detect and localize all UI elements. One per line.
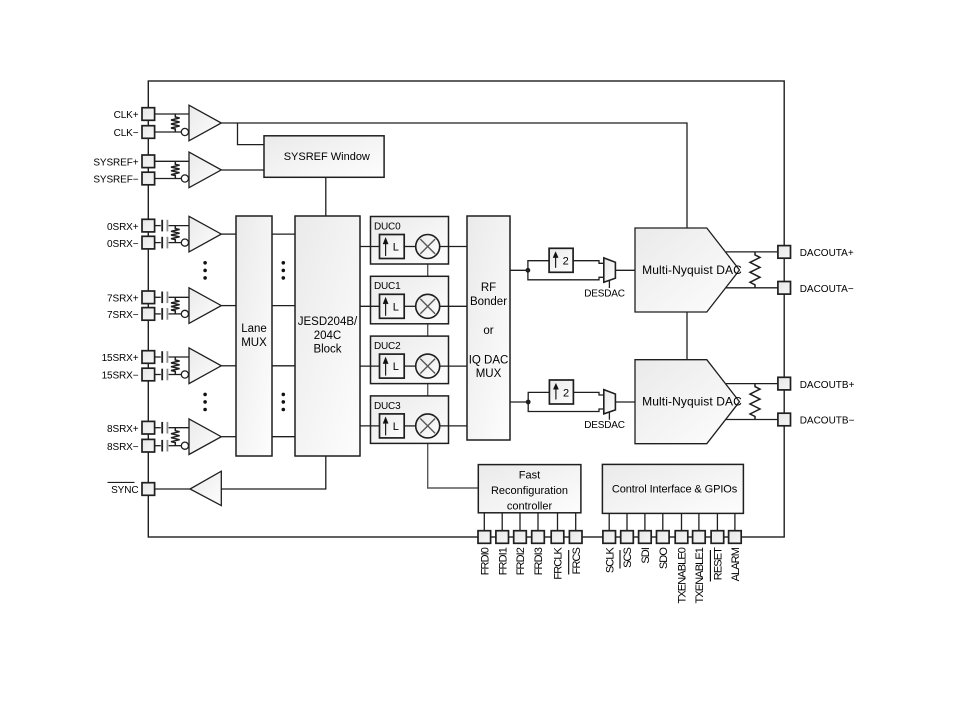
wire 8SRX+ input	[155, 427, 161, 429]
wire SYSREF Window to JESD block	[325, 177, 327, 216]
block Multi-Nyquist DAC B	[635, 360, 740, 444]
svg-text:204C: 204C	[314, 330, 342, 342]
wire to pin FRCLK	[557, 513, 559, 531]
pin RESET	[711, 531, 724, 544]
wire DAC A plus output	[726, 251, 778, 253]
svg-text:SYNC: SYNC	[111, 485, 138, 496]
wire interpolator to mixer DUC1	[404, 305, 416, 307]
wire to pin SDI	[644, 513, 646, 530]
wire B upper branch	[528, 392, 549, 402]
svg-text:SDO: SDO	[658, 547, 670, 569]
svg-text:L: L	[393, 242, 399, 254]
wire to pin FRDI1	[501, 513, 503, 531]
block RF Bonder / IQ DAC MUX	[467, 216, 510, 440]
pin 7SRX+	[142, 291, 155, 304]
interpolator x2 box B	[549, 380, 573, 404]
coupling capacitor 0SRX+	[161, 220, 163, 232]
ellipsis dots left lower	[203, 393, 207, 397]
wire JESD to SYNC buffer	[221, 456, 325, 489]
inversion bubble 7SRX-	[181, 310, 188, 317]
wire A x2 output to mux	[573, 261, 604, 264]
wire SYNC pin to buffer	[155, 488, 190, 490]
interpolator L box DUC0	[380, 235, 405, 259]
svg-text:FRCLK: FRCLK	[553, 546, 565, 579]
svg-text:SCLK: SCLK	[604, 546, 616, 573]
wire 8SRX buffer to Lane MUX	[221, 436, 236, 438]
svg-text:TXENABLE1: TXENABLE1	[694, 547, 706, 603]
pin FRDI3	[532, 531, 545, 544]
wire JESD to DUC2	[360, 365, 380, 367]
wire interpolator to mixer DUC0	[404, 246, 416, 248]
ellipsis dots mid upper	[282, 261, 286, 265]
wire SYSREF+ input	[155, 160, 189, 162]
wire DAC A minus output	[726, 287, 778, 289]
pin SYSREF-	[142, 172, 155, 185]
pin SYSREF+	[142, 155, 155, 168]
wire JESD to DUC1	[360, 305, 380, 307]
svg-text:CLK−: CLK−	[114, 128, 139, 139]
pin 15SRX-	[142, 368, 155, 381]
svg-text:2: 2	[563, 387, 569, 399]
wire interpolator to mixer DUC3	[404, 425, 416, 427]
svg-text:DESDAC: DESDAC	[584, 288, 624, 299]
svg-text:RESET: RESET	[713, 547, 725, 580]
wire DUC3 to RF bonder	[440, 425, 467, 427]
inversion bubble 15SRX-	[181, 371, 188, 378]
pin TXENABLE1	[693, 531, 706, 544]
block Lane MUX	[236, 216, 272, 456]
termination resistor DACOUTA	[750, 252, 760, 288]
pin DACOUTA+	[778, 246, 791, 259]
svg-text:Block: Block	[313, 344, 341, 356]
block JESD204B/204C	[295, 216, 360, 456]
wire mux B to DAC	[615, 401, 635, 403]
block DUC1	[371, 276, 449, 324]
svg-text:Multi-Nyquist DAC: Multi-Nyquist DAC	[642, 395, 742, 409]
wire 15SRX- input	[155, 374, 161, 376]
coupling capacitor 8SRX-	[161, 440, 163, 452]
svg-text:SDI: SDI	[640, 547, 652, 563]
svg-text:FRCS: FRCS	[571, 547, 583, 574]
inversion bubble 8SRX-	[181, 442, 188, 449]
wire A bypass branch	[528, 270, 604, 280]
wire to pin SCLK	[608, 513, 610, 530]
mux DESDAC B	[604, 390, 616, 414]
svg-text:L: L	[393, 361, 399, 373]
svg-text:RF: RF	[481, 282, 496, 294]
svg-text:8SRX−: 8SRX−	[107, 442, 139, 453]
interpolator L box DUC2	[380, 354, 405, 378]
svg-text:SYSREF−: SYSREF−	[93, 175, 138, 186]
svg-text:FRDI2: FRDI2	[515, 547, 527, 575]
svg-text:CLK+: CLK+	[114, 110, 139, 121]
wire to pin ALARM	[734, 513, 736, 530]
interpolator L box DUC1	[380, 294, 405, 318]
coupling capacitor 7SRX-	[161, 308, 163, 320]
wire CLK+ input	[155, 113, 189, 115]
pin DACOUTA-	[778, 282, 791, 295]
svg-text:controller: controller	[507, 500, 553, 512]
pin FRDI1	[496, 531, 509, 544]
wire DUC0 to RF bonder	[440, 246, 467, 248]
wire JESD to DUC3	[360, 425, 380, 427]
svg-text:FRDI3: FRDI3	[533, 547, 545, 575]
wire B x2 output to mux	[573, 392, 603, 395]
coupling capacitor 8SRX+	[161, 422, 163, 434]
input buffer 15SRX	[189, 348, 221, 384]
svg-text:15SRX−: 15SRX−	[102, 371, 139, 382]
svg-text:DUC0: DUC0	[374, 221, 401, 232]
svg-text:IQ DAC: IQ DAC	[469, 355, 509, 367]
wire Lane MUX to JESD lane 8	[272, 436, 295, 438]
block Fast Reconfiguration controller	[478, 465, 581, 513]
coupling capacitor 15SRX+	[161, 351, 163, 363]
mixer DUC2	[416, 354, 440, 378]
svg-text:DACOUTA+: DACOUTA+	[800, 248, 854, 259]
pin TXENABLE0	[675, 531, 688, 544]
coupling capacitor 15SRX-	[161, 369, 163, 381]
pin 15SRX+	[142, 351, 155, 364]
wire to pin FRCS	[575, 513, 577, 531]
wire to pin FRDI0	[483, 513, 485, 531]
svg-text:TXENABLE0: TXENABLE0	[677, 547, 689, 603]
wire 8SRX- input	[155, 445, 161, 447]
wire Lane MUX to JESD lane 0	[272, 233, 295, 235]
svg-text:8SRX+: 8SRX+	[107, 424, 139, 435]
output buffer SYNC	[190, 471, 221, 505]
wire CLK branch to SYSREF Window	[238, 123, 265, 145]
svg-text:Reconfiguration: Reconfiguration	[491, 485, 568, 497]
wire DUC1 to RF bonder	[440, 305, 467, 307]
wire RF bonder output to B junction	[510, 401, 528, 403]
pin SDO	[657, 531, 670, 544]
pin FRDI2	[514, 531, 527, 544]
svg-text:JESD204B/: JESD204B/	[298, 316, 358, 328]
wire 15SRX+ input	[155, 356, 161, 358]
termination resistor DACOUTB	[750, 384, 760, 420]
coupling capacitor 0SRX-	[161, 237, 163, 249]
pin SCLK	[603, 531, 616, 544]
pin SDI	[639, 531, 652, 544]
svg-text:L: L	[393, 421, 399, 433]
svg-text:FRDI0: FRDI0	[480, 547, 492, 575]
termination resistor 8SRX	[171, 428, 180, 446]
svg-text:7SRX+: 7SRX+	[107, 294, 139, 305]
select line DESDAC B	[608, 412, 610, 420]
pin SCS	[621, 531, 634, 544]
svg-text:0SRX−: 0SRX−	[107, 239, 139, 250]
wire CLK- input	[155, 131, 182, 133]
pin FRCS	[569, 531, 582, 544]
svg-text:DUC1: DUC1	[374, 281, 401, 292]
label SYNC	[108, 481, 135, 483]
pin FRDI0	[478, 531, 491, 544]
wire mixer chain to Fast Reconfiguration controller	[428, 258, 479, 488]
mixer DUC1	[416, 294, 440, 318]
block Multi-Nyquist DAC A	[635, 228, 740, 312]
input buffer 8SRX	[189, 419, 221, 455]
wire to pin TXENABLE0	[681, 513, 683, 530]
svg-text:DACOUTB+: DACOUTB+	[800, 380, 855, 391]
pin 0SRX-	[142, 236, 155, 249]
pin 8SRX-	[142, 439, 155, 452]
input buffer SYSREF	[189, 152, 221, 188]
pin CLK+	[142, 108, 155, 121]
ellipsis dots mid lower	[282, 393, 286, 397]
svg-text:DUC2: DUC2	[374, 341, 401, 352]
svg-text:0SRX+: 0SRX+	[107, 222, 139, 233]
input buffer CLK	[189, 105, 221, 141]
wire SYSREF buffer to window	[221, 169, 264, 171]
wire Lane MUX to JESD lane 7	[272, 305, 295, 307]
svg-text:Lane: Lane	[241, 323, 267, 335]
input buffer 7SRX	[189, 288, 221, 324]
wire to pin TXENABLE1	[698, 513, 700, 530]
termination resistor 0SRX	[171, 226, 180, 243]
pin CLK-	[142, 126, 155, 139]
wire 0SRX- input	[155, 242, 161, 244]
svg-text:MUX: MUX	[241, 337, 267, 349]
svg-text:FRDI1: FRDI1	[497, 547, 509, 575]
inversion bubble CLK-	[181, 128, 188, 135]
svg-text:L: L	[393, 301, 399, 313]
svg-text:or: or	[483, 325, 493, 337]
wire mux A to DAC	[615, 269, 635, 271]
chip boundary	[148, 81, 784, 537]
interpolator L box DUC3	[380, 414, 405, 438]
wire DAC B minus output	[726, 419, 778, 421]
svg-text:DESDAC: DESDAC	[584, 420, 624, 431]
wire to pin RESET	[716, 513, 718, 530]
block SYSREF Window	[264, 136, 384, 178]
wire 7SRX- input	[155, 313, 161, 315]
wire B bypass branch	[528, 402, 604, 412]
block DUC3	[371, 396, 449, 444]
svg-text:Bonder: Bonder	[470, 296, 507, 308]
wire to pin FRDI2	[519, 513, 521, 531]
wire DUC2 to RF bonder	[440, 365, 467, 367]
mixer DUC3	[416, 414, 440, 438]
wire DAC B plus output	[726, 383, 778, 385]
wire Lane MUX to JESD lane 15	[272, 365, 295, 367]
svg-text:MUX: MUX	[476, 368, 502, 380]
interpolator x2 box A	[549, 248, 573, 272]
svg-text:Control Interface & GPIOs: Control Interface & GPIOs	[612, 484, 738, 496]
block DUC2	[371, 336, 449, 384]
svg-text:SYSREF Window: SYSREF Window	[284, 151, 370, 163]
wire to pin SCS	[626, 513, 628, 530]
wire 0SRX+ input	[155, 225, 161, 227]
wire 0SRX buffer to Lane MUX	[221, 233, 236, 235]
pin DACOUTB-	[778, 413, 791, 426]
coupling capacitor 7SRX+	[161, 292, 163, 304]
wire 7SRX+ input	[155, 296, 161, 298]
wire to pin FRDI3	[537, 513, 539, 531]
input buffer 0SRX	[189, 216, 221, 252]
termination resistor 15SRX	[171, 357, 180, 375]
inversion bubble SYSREF-	[181, 175, 188, 182]
svg-text:Multi-Nyquist DAC: Multi-Nyquist DAC	[642, 263, 742, 277]
block DUC0	[371, 217, 449, 265]
mixer DUC0	[416, 235, 440, 259]
wire RF bonder output to A junction	[510, 269, 528, 271]
pin SYNC	[142, 483, 155, 496]
wire DAC A to DAC B clock	[686, 312, 688, 360]
mux DESDAC A	[604, 258, 616, 282]
wire interpolator to mixer DUC2	[404, 365, 416, 367]
select line DESDAC A	[608, 280, 610, 288]
inversion bubble 0SRX-	[181, 239, 188, 246]
wire 15SRX buffer to Lane MUX	[221, 365, 236, 367]
wire to pin SDO	[662, 513, 664, 530]
pin 7SRX-	[142, 308, 155, 321]
pin ALARM	[729, 531, 742, 544]
wire SYSREF- input	[155, 178, 182, 180]
pin 8SRX+	[142, 421, 155, 434]
svg-text:SCS: SCS	[622, 547, 634, 567]
termination resistor SYSREF	[171, 161, 180, 178]
junction dot B	[526, 400, 531, 405]
junction dot A	[526, 268, 531, 273]
svg-text:Fast: Fast	[519, 470, 540, 482]
block Control Interface and GPIOs	[602, 464, 743, 513]
wire 7SRX buffer to Lane MUX	[221, 305, 236, 307]
pin DACOUTB+	[778, 377, 791, 390]
wire A upper branch	[528, 261, 549, 271]
svg-text:7SRX−: 7SRX−	[107, 310, 139, 321]
termination resistor 7SRX	[171, 297, 180, 314]
svg-text:ALARM: ALARM	[730, 547, 742, 581]
pin FRCLK	[551, 531, 564, 544]
termination resistor CLK	[171, 114, 180, 132]
svg-text:SYSREF+: SYSREF+	[93, 158, 138, 169]
svg-text:DACOUTA−: DACOUTA−	[800, 284, 854, 295]
svg-text:15SRX+: 15SRX+	[102, 353, 139, 364]
ellipsis dots left upper	[203, 261, 207, 265]
wire JESD to DUC0	[360, 246, 380, 248]
svg-text:DUC3: DUC3	[374, 401, 401, 412]
wire CLK buffer output to DAC column	[221, 123, 687, 228]
pin 0SRX+	[142, 219, 155, 232]
svg-text:2: 2	[563, 256, 569, 268]
svg-text:DACOUTB−: DACOUTB−	[800, 416, 855, 427]
